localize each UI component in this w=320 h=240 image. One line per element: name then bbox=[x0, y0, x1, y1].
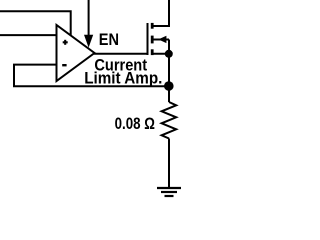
transistor Q1 body lead bbox=[154, 39, 170, 41]
transistor Q1 body arrow bbox=[158, 36, 166, 43]
wire non-inverting input bbox=[0, 34, 57, 36]
resistor R sense 0.08 ohm bbox=[162, 102, 177, 139]
EN arrow wire bbox=[88, 0, 90, 36]
transistor Q1 gate bar bbox=[147, 23, 149, 55]
svg-text:0.08 Ω: 0.08 Ω bbox=[115, 114, 155, 133]
wire top-left input to op-amp top edge bbox=[0, 11, 71, 36]
transistor Q1 channel segments bbox=[151, 23, 154, 55]
ground bbox=[157, 188, 181, 196]
wire source to resistor bbox=[168, 40, 170, 103]
wire inverting input feedback to sense node bbox=[14, 65, 169, 87]
wire resistor to ground bbox=[168, 139, 170, 189]
svg-text:EN: EN bbox=[99, 30, 119, 49]
EN arrowhead bbox=[84, 35, 93, 48]
op-amp U1 Current Limit Amp bbox=[57, 25, 95, 81]
transistor Q1 source lead bbox=[152, 53, 169, 55]
svg-text:Limit Amp.: Limit Amp. bbox=[84, 69, 162, 88]
minus input label bbox=[62, 64, 66, 66]
wire op-amp output to gate bbox=[94, 53, 147, 55]
plus input label bbox=[63, 40, 68, 45]
junction dot sense node bbox=[164, 81, 174, 91]
transistor Q1 drain lead bbox=[152, 0, 169, 26]
junction dot source bbox=[165, 50, 173, 58]
